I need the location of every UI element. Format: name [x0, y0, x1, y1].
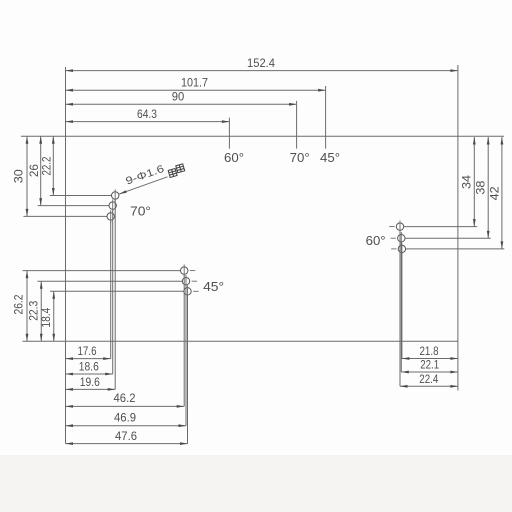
- plate bottom edge with left extension: [23, 340, 458, 342]
- svg-text:21.8: 21.8: [420, 346, 439, 358]
- plate right edge / vertical extension line: [457, 65, 459, 391]
- svg-text:101.7: 101.7: [181, 78, 208, 90]
- hole A2: [109, 199, 116, 211]
- svg-text:18.6: 18.6: [79, 361, 99, 373]
- dimension 21.8: [402, 346, 458, 360]
- extension from hole A2 down: [112, 209, 114, 374]
- svg-text:19.6: 19.6: [80, 377, 100, 389]
- svg-text:22.1: 22.1: [420, 360, 439, 372]
- extension from hole C2 down: [400, 242, 402, 372]
- extension row to hole A1: [50, 195, 112, 197]
- dimension 101.7: [66, 78, 326, 92]
- svg-text:26: 26: [29, 164, 41, 177]
- stub left of hole C2: [391, 237, 396, 239]
- extension from hole B1 down: [183, 274, 185, 406]
- svg-text:90: 90: [172, 92, 185, 104]
- svg-text:26.2: 26.2: [13, 295, 25, 315]
- dimension 90: [66, 92, 297, 106]
- label 9-phi1.6: [124, 163, 166, 188]
- label 70 deg: [290, 150, 310, 165]
- extension from hole A1 down: [114, 199, 116, 389]
- svg-text:42: 42: [490, 186, 502, 200]
- extension row from hole C3: [406, 248, 505, 250]
- label 45 deg: [320, 150, 340, 165]
- extension row to hole B3: [50, 290, 184, 292]
- plate left edge / vertical extension line: [65, 67, 67, 444]
- hole A3: [107, 210, 114, 222]
- extension row to hole B2: [38, 280, 183, 282]
- svg-text:70°: 70°: [130, 203, 151, 218]
- dimension 46.2: [66, 393, 185, 408]
- stub left of hole C1: [389, 226, 394, 228]
- stub left of hole C3: [391, 248, 396, 250]
- svg-text:34: 34: [462, 174, 474, 189]
- svg-text:60°: 60°: [224, 150, 244, 165]
- svg-text:22.4: 22.4: [419, 374, 439, 386]
- svg-text:18.4: 18.4: [41, 307, 53, 328]
- extension row to hole B1: [23, 270, 181, 272]
- dimension 17.6: [66, 346, 111, 360]
- hole C2: [398, 232, 405, 244]
- extension row to hole A3: [23, 215, 107, 217]
- svg-text:152.4: 152.4: [247, 58, 276, 70]
- dimension 19.6: [66, 377, 116, 391]
- label 45 deg (hole group B): [203, 279, 224, 294]
- extension row from hole C2: [405, 237, 491, 239]
- dimension 18.6: [66, 361, 113, 375]
- extension line for 70 deg hole: [296, 101, 298, 149]
- extension line for 60 deg hole: [228, 118, 230, 149]
- dimension 64.3: [66, 109, 230, 123]
- dimension 22.3: [28, 281, 42, 341]
- label 60 deg: [224, 150, 244, 165]
- dimension 26: [29, 136, 42, 205]
- extension row to hole A2: [38, 205, 110, 207]
- dimension 47.6: [66, 431, 188, 445]
- extension line for 45 deg hole: [325, 86, 327, 149]
- leader line 9-phi1.6: [119, 177, 167, 194]
- dimension 30: [13, 136, 28, 216]
- extension row from hole C1: [404, 226, 478, 228]
- dimension 152.4 (overall width): [66, 58, 458, 72]
- label 60 deg (hole group C): [366, 233, 386, 248]
- svg-text:46.9: 46.9: [114, 412, 136, 424]
- dimension 22.2: [42, 136, 55, 195]
- svg-text:46.2: 46.2: [114, 393, 136, 405]
- hole C1: [396, 220, 403, 232]
- hole B3: [184, 285, 199, 297]
- svg-text:47.6: 47.6: [115, 431, 137, 443]
- svg-text:38: 38: [475, 181, 487, 195]
- svg-text:30: 30: [13, 169, 25, 183]
- label 70 deg (hole group A): [130, 203, 151, 218]
- svg-text:22.3: 22.3: [28, 301, 40, 321]
- hole C3: [398, 243, 405, 255]
- svg-text:60°: 60°: [366, 233, 386, 248]
- svg-text:70°: 70°: [290, 150, 310, 165]
- extension from hole C3 down: [401, 253, 403, 359]
- dimension 22.4: [400, 374, 458, 388]
- dimension 22.1: [401, 360, 458, 374]
- dimension 38: [475, 137, 489, 238]
- hole A1: [112, 189, 119, 201]
- hole B2: [182, 275, 197, 287]
- plate top edge with extension lines: [21, 135, 504, 137]
- extension from hole B2 down: [185, 285, 187, 426]
- svg-text:45°: 45°: [203, 279, 224, 294]
- dimension 34: [462, 137, 476, 227]
- extension from hole C1 down: [399, 230, 401, 386]
- extension from hole B3 down: [187, 295, 189, 444]
- label tong-kong (through hole, CJK): [168, 164, 186, 178]
- dimension 46.9: [66, 412, 187, 427]
- svg-text:64.3: 64.3: [137, 109, 157, 121]
- hole B1: [181, 264, 196, 276]
- dimension 26.2: [13, 271, 28, 342]
- dimension 42: [490, 137, 504, 249]
- svg-text:45°: 45°: [320, 150, 340, 165]
- svg-text:22.2: 22.2: [42, 157, 54, 176]
- dimension 18.4: [41, 291, 55, 341]
- svg-text:17.6: 17.6: [78, 346, 97, 358]
- extension from hole A3 down: [110, 220, 112, 359]
